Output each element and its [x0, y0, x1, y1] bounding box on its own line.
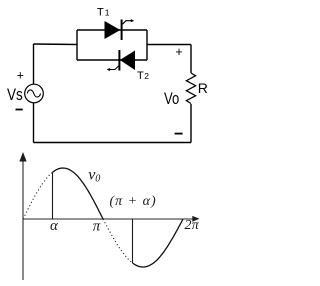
vertical line at alpha [52, 172, 54, 219]
thyristor T2 triangle (anode, pointing left) [120, 51, 134, 70]
svg-text:Vo: Vo [164, 90, 179, 108]
thyristor T2 gate lead with arrow [107, 66, 119, 71]
svg-text:Vs: Vs [7, 86, 23, 104]
wire: top-left horizontal to parallel box [34, 43, 78, 46]
svg-text:2: 2 [144, 71, 149, 81]
dotted sine segment pi to pi+alpha [103, 219, 133, 263]
label - (source negative) [16, 109, 23, 111]
x-axis of waveform with arrowhead [23, 216, 200, 222]
ac source Vs circle with sine symbol [25, 84, 44, 103]
wire: parallel box outline (top rail, bottom rail, left and right verticals) [77, 30, 147, 60]
svg-text:0: 0 [95, 174, 100, 185]
vertical line at pi+alpha [132, 219, 134, 263]
svg-text:R: R [198, 80, 208, 96]
wire: left vertical from top-left corner to bottom rail [33, 44, 35, 143]
wire: right vertical lower lead from resistor to bottom rail [190, 104, 192, 143]
svg-text:+: + [17, 68, 24, 82]
svg-text:1: 1 [105, 8, 110, 18]
svg-text:2π: 2π [185, 218, 200, 233]
wire: right vertical upper lead into resistor [190, 45, 192, 74]
resistor R zigzag [186, 73, 195, 104]
svg-text:+: + [175, 45, 182, 59]
dotted sine segment 0 to alpha [23, 172, 53, 219]
solid sine segment pi+alpha to 2pi [133, 219, 184, 267]
wire: bottom rail [34, 142, 192, 144]
svg-text:α: α [50, 218, 59, 234]
label - (output negative) [175, 133, 183, 135]
svg-text:T: T [137, 70, 144, 82]
svg-text:(π + α): (π + α) [110, 194, 157, 209]
svg-text:T: T [97, 7, 104, 19]
solid sine segment alpha to pi [53, 168, 104, 219]
thyristor T1 gate lead with arrow [123, 19, 135, 24]
svg-text:π: π [93, 219, 101, 235]
wire: mid horizontal from box right side to right corner [147, 44, 191, 46]
y-axis of waveform with arrowhead [19, 152, 26, 280]
thyristor T2 cathode bar [118, 50, 120, 71]
thyristor T1 triangle (anode, pointing right) [105, 22, 120, 39]
thyristor T1 cathode bar [121, 20, 123, 41]
